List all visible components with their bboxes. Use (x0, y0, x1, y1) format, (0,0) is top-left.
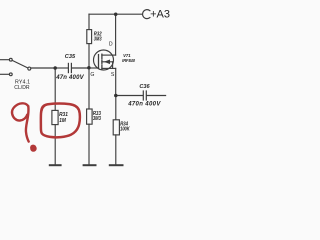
svg-text:+A3: +A3 (150, 9, 170, 21)
transistor V71 drain link (102, 54, 116, 56)
wire C35 to gate node (72, 67, 89, 69)
ground R31 (50, 164, 61, 166)
terminal +A3 arc (143, 10, 150, 19)
drain rail junction dot (114, 12, 118, 16)
resistor R33 (87, 109, 93, 124)
red question mark dot (31, 145, 36, 151)
transistor V71 body jog (112, 62, 114, 69)
svg-text:470n 400V: 470n 400V (127, 101, 161, 107)
svg-text:C36: C36 (139, 84, 150, 90)
gate node junction dot (87, 66, 91, 70)
capacitor C35 right plate (70, 63, 72, 72)
resistor R32 (87, 30, 92, 44)
node B junction dot (114, 94, 118, 98)
svg-text:1M: 1M (59, 118, 66, 124)
red question mark annotation (12, 103, 28, 120)
wire gate node down to R33 (88, 68, 90, 109)
resistor R31 (52, 110, 58, 124)
wire drain up to rail (115, 14, 117, 55)
resistor R34 (113, 120, 119, 135)
transistor V71 gate bar (98, 55, 100, 68)
red circle overlap stroke (41, 104, 47, 111)
svg-text:47n 400V: 47n 400V (55, 75, 84, 81)
top rail (89, 13, 142, 15)
transistor V71 body circle (94, 50, 114, 70)
transistor V71 arrow (104, 60, 110, 65)
red question mark tail (26, 106, 29, 141)
wire C36 right end (147, 95, 166, 97)
wire node A to C35 (55, 67, 68, 69)
relay RY4.1 top contact stub (0, 59, 9, 61)
capacitor C36 right plate (145, 91, 147, 100)
wire R31 to ground (54, 125, 56, 165)
transistor V71 channel top dash (101, 54, 103, 58)
capacitor C35 left plate (67, 63, 69, 72)
relay RY4.1 bottom contact stub (0, 73, 9, 75)
wire R32 to gate node (88, 44, 90, 68)
wire pivot to node A (31, 67, 55, 69)
svg-text:100K: 100K (120, 127, 130, 133)
wire R33 to ground (88, 124, 90, 164)
svg-text:C35: C35 (65, 54, 76, 60)
wire node A down to R31 (54, 68, 56, 110)
wire R34 to ground (115, 135, 117, 165)
red circle annotation around R31 (41, 104, 80, 138)
svg-text:3M3: 3M3 (94, 36, 102, 42)
relay RY4.1 top contact circle (9, 58, 12, 61)
wire node B to C36 (116, 95, 143, 97)
svg-text:3M3: 3M3 (93, 116, 101, 122)
svg-text:S: S (111, 72, 115, 78)
svg-text:CL/DR: CL/DR (14, 85, 29, 91)
wire rail to R32 (88, 14, 90, 29)
relay RY4.1 bottom contact circle (9, 73, 12, 76)
transistor V71 source link (102, 67, 116, 69)
ground R34 (110, 164, 123, 166)
svg-text:G: G (90, 72, 94, 78)
transistor V71 body link (102, 61, 113, 63)
relay RY4.1 switch arm (12, 60, 28, 68)
ground R33 (84, 164, 96, 166)
wire node B down to R34 (115, 96, 117, 120)
transistor V71 channel bottom dash (101, 65, 103, 69)
capacitor C36 left plate (142, 91, 144, 100)
svg-text:D: D (109, 41, 113, 47)
wire gate node to gate bar (89, 67, 99, 69)
node A junction dot (53, 66, 57, 70)
svg-text:IRF840: IRF840 (122, 58, 135, 63)
wire source down to node B (115, 68, 117, 95)
transistor V71 channel mid dash (101, 60, 103, 64)
relay RY4.1 pivot circle (28, 67, 31, 70)
